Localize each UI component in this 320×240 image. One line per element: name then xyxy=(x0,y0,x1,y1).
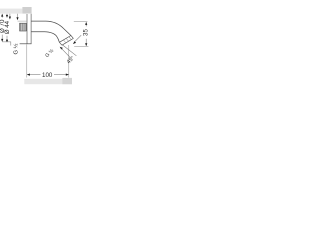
O70 arrow bottom xyxy=(1,39,3,42)
outlet corner diagonal line xyxy=(63,45,77,56)
dimension O70 line xyxy=(1,14,3,41)
flange bottom line xyxy=(20,43,32,45)
extension line arm-top right xyxy=(74,21,88,23)
bottom wall band dark part xyxy=(62,78,72,84)
stub arrow b (x17.5) xyxy=(17,14,19,17)
wall band dark block (escutcheon behind) xyxy=(22,7,31,14)
collar closure high xyxy=(71,36,74,39)
dimension 100 line xyxy=(27,74,68,76)
svg-text:Ø 44: Ø 44 xyxy=(4,20,11,34)
100 arrow right xyxy=(66,74,69,76)
O70 arrow top xyxy=(1,14,3,17)
dimension 35 line xyxy=(85,24,87,44)
hidden tube top line in wall xyxy=(18,20,27,22)
O44 arrow top (outside, pointing down) xyxy=(6,15,8,18)
stub arrow a (x10) xyxy=(9,14,11,17)
arm tube inner (bottom) edge xyxy=(31,32,59,43)
45deg vertex arrow xyxy=(73,41,76,44)
35 arrow top (pointing up) xyxy=(85,22,87,25)
thread tick 3 xyxy=(69,37,72,40)
thread hatch block (rear G1/2 thread) xyxy=(20,23,27,31)
35 arrow bottom (pointing down) xyxy=(85,43,87,46)
svg-text:100: 100 xyxy=(42,72,53,79)
svg-text:G ½: G ½ xyxy=(13,43,20,54)
extension line outlet down xyxy=(68,45,70,78)
45deg leader arrow xyxy=(60,47,63,50)
G1/2 leader left xyxy=(2,42,11,46)
extension line flange-left down xyxy=(26,44,28,77)
O44 arrow bottom (outside, pointing up) xyxy=(6,38,8,41)
100 arrow left xyxy=(27,74,30,76)
45deg side line (axis extension) xyxy=(74,35,81,42)
collar closure low xyxy=(59,42,62,45)
background xyxy=(0,0,90,90)
dimension O44 line xyxy=(6,14,8,42)
flange plate (side view) xyxy=(27,14,31,44)
outlet collar rear line xyxy=(62,38,74,45)
bottom wall band light xyxy=(24,79,72,84)
45deg leader line xyxy=(62,49,72,59)
outlet face line (thread collar front) xyxy=(59,36,71,43)
arm tube outer (top) edge xyxy=(31,21,71,35)
extension line outlet-tip right xyxy=(74,46,88,48)
wall band light (top) xyxy=(0,9,22,14)
thread tick 2 xyxy=(66,38,69,41)
thread tick 1 xyxy=(63,40,66,43)
svg-text:35: 35 xyxy=(83,29,90,36)
